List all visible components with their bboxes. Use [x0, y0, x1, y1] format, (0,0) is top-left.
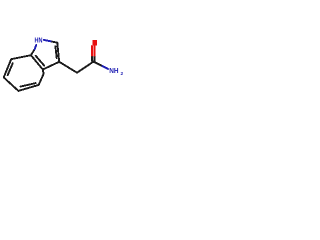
C=O double bond red upper halves	[91, 46, 93, 56]
bond C2=C3 inner line	[55, 46, 56, 58]
inner line of C3a=C7a fusion double bond	[36, 56, 45, 66]
bond C3-C3a	[43, 62, 59, 70]
bond CH2-C carbonyl	[77, 62, 94, 73]
inner line of C5=C4 double bond	[21, 83, 36, 86]
bond N1-C2 blue half	[44, 40, 51, 41]
benzene ring outline C7a-C7-C6-C5-C4-C3a	[4, 55, 44, 91]
C=O double bond black lower halves	[91, 56, 93, 61]
O atom label (solid red blob)	[92, 40, 97, 46]
bond C7a-N1 blue upper half	[35, 45, 37, 50]
bond C2=C3 main line	[57, 43, 59, 62]
inner line of C7=C6 double bond	[8, 63, 13, 75]
bond C3-CH2	[59, 62, 77, 73]
bond C7a-N1 lower black half	[31, 49, 35, 55]
svg-text:NH: NH	[109, 66, 118, 75]
svg-text:2: 2	[121, 71, 124, 77]
bond Cco-NH2 blue half	[102, 66, 108, 69]
bond Cco-NH2 black half	[94, 62, 103, 67]
svg-text:HN: HN	[35, 35, 43, 44]
molecule: 2-(1H-indol-3-yl)acetamide skeletal structure	[0, 0, 130, 130]
bond N1-C2 black half	[51, 41, 58, 42]
